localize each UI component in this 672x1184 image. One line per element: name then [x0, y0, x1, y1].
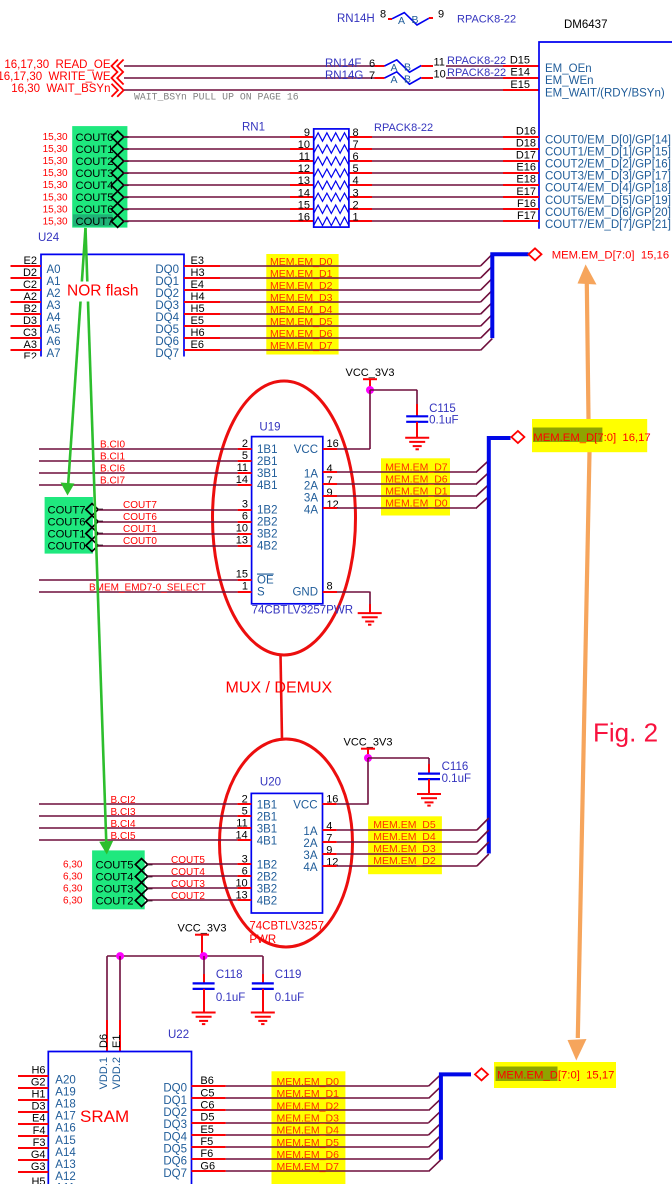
svg-text:A: A [398, 15, 405, 27]
svg-text:1B2: 1B2 [257, 505, 277, 517]
pin stub D16 [503, 136, 539, 138]
bus MEM.EM_D[7:0] top [492, 254, 528, 338]
wire MEM.EM_D2 from U22 [226, 1109, 429, 1111]
bus connector diamond MEM.EM_D[7:0] [529, 248, 542, 260]
svg-text:RPACK8-22: RPACK8-22 [457, 13, 516, 25]
off-page diamond COUT5 [135, 859, 147, 871]
svg-text:2A: 2A [303, 838, 317, 850]
svg-text:6: 6 [242, 511, 248, 523]
pin stub E15 [503, 89, 539, 91]
wire VDD.1 drop [106, 956, 108, 1020]
svg-text:COUT2: COUT2 [171, 891, 205, 902]
wire COUT7 to RN1 [124, 220, 290, 222]
pin stub D15 [503, 65, 539, 67]
svg-text:4: 4 [327, 463, 333, 475]
annotation orange arrow down (16,17 -> 15,17) [568, 1039, 587, 1061]
svg-text:15,30: 15,30 [43, 180, 68, 191]
stub RN1 pin 5 [349, 172, 372, 174]
svg-text:H6: H6 [31, 1065, 45, 1077]
svg-text:E3: E3 [191, 255, 204, 267]
svg-text:D15: D15 [510, 55, 530, 67]
svg-text:3B2: 3B2 [257, 884, 277, 896]
wire MEM.EM_D5 from U22 [226, 1146, 429, 1148]
svg-text:GND: GND [292, 587, 318, 599]
svg-text:MEM.EM_D6: MEM.EM_D6 [270, 328, 333, 340]
off-page diamond COUT1 [86, 528, 98, 540]
IC U24 NOR flash (clipped bottom) [41, 254, 184, 356]
svg-text:2B2: 2B2 [257, 872, 277, 884]
wire RN1 to DM6437 D16 [372, 136, 503, 138]
svg-text:VCC: VCC [294, 444, 318, 456]
svg-text:16: 16 [298, 211, 310, 223]
yellow highlight MEM.EM_D labels (U19) [381, 458, 450, 515]
svg-text:16,17,30 READ_OE: 16,17,30 READ_OE [4, 59, 110, 71]
wire B.CI6 [39, 472, 238, 474]
svg-text:B: B [411, 14, 418, 26]
svg-text:MEM.EM_D6: MEM.EM_D6 [385, 474, 448, 486]
pin stub E18 [503, 184, 539, 186]
svg-text:E5: E5 [191, 315, 204, 327]
stub RN1 pin 11 [290, 160, 314, 162]
svg-text:SRAM: SRAM [80, 1107, 129, 1126]
svg-text:E4: E4 [191, 279, 204, 291]
svg-text:9: 9 [327, 487, 333, 499]
diagonal join MEM.EM_D0 to bus [481, 254, 493, 266]
off-page diamond COUT6 [111, 203, 123, 215]
node VCC junction C118 [200, 952, 208, 960]
svg-text:4A: 4A [304, 505, 318, 517]
off-page diamond COUT1 [111, 143, 123, 155]
IC U20 74CBTLV3257 [249, 777, 324, 947]
svg-text:DQ4: DQ4 [163, 1131, 187, 1143]
svg-text:DQ3: DQ3 [155, 300, 179, 312]
stub U24 H3 [184, 277, 220, 279]
wire RN14F to DM6437 D15 [446, 65, 503, 67]
wire B.CI5 [39, 839, 237, 841]
svg-text:VDD.1: VDD.1 [98, 1057, 110, 1089]
wire COUT0 to U19 [98, 545, 238, 547]
wire COUT5 to RN1 [124, 196, 290, 198]
svg-text:4B2: 4B2 [257, 896, 277, 908]
svg-text:3: 3 [353, 187, 359, 199]
svg-text:12: 12 [327, 499, 339, 511]
stub U22 H1 [18, 1099, 48, 1101]
svg-text:5: 5 [353, 163, 359, 175]
off-page diamond COUT7 [111, 215, 123, 227]
diagonal join MEM.EM_D6 to bus [481, 327, 493, 339]
svg-text:MEM.EM_D1: MEM.EM_D1 [277, 1088, 340, 1100]
stub U22 G6 [192, 1170, 226, 1172]
svg-text:MEM.EM_D7: MEM.EM_D7 [270, 340, 333, 352]
svg-text:MEM.EM_D[7:0] 16,17: MEM.EM_D[7:0] 16,17 [533, 432, 650, 444]
svg-text:VCC_3V3: VCC_3V3 [178, 923, 227, 935]
svg-text:COUT5: COUT5 [171, 855, 205, 866]
svg-text:E18: E18 [516, 174, 536, 186]
pin stub D18 [503, 148, 539, 150]
svg-text:3: 3 [242, 499, 248, 511]
wire U19 VCC [337, 448, 370, 450]
svg-text:COUT1: COUT1 [76, 144, 114, 156]
svg-text:COUT2/EM_D[2]/GP[16]: COUT2/EM_D[2]/GP[16] [545, 159, 671, 171]
node VCC junction U20 [364, 754, 372, 762]
wire COUT1 to U19 [98, 533, 238, 535]
net connector block COUT0-7 (green highlight) [72, 126, 127, 228]
wire B.CI1 [39, 460, 238, 462]
svg-text:COUT1: COUT1 [123, 524, 157, 535]
svg-text:B.CI0: B.CI0 [100, 440, 125, 451]
wire COUT0 to RN1 [124, 136, 290, 138]
svg-text:G2: G2 [31, 1077, 46, 1089]
svg-text:F5: F5 [200, 1136, 213, 1148]
svg-text:4B2: 4B2 [257, 541, 277, 553]
svg-text:COUT7: COUT7 [76, 216, 114, 228]
svg-text:D2: D2 [23, 267, 37, 279]
wire MEM.EM_D1 from U22 [226, 1097, 429, 1099]
svg-text:MEM.EM_D3: MEM.EM_D3 [277, 1112, 340, 1124]
svg-text:EM_OEn: EM_OEn [545, 63, 592, 75]
wire BMEM_EMD7-0_SELECT [39, 591, 238, 593]
svg-text:C118: C118 [216, 969, 243, 981]
svg-text:4B1: 4B1 [257, 480, 277, 492]
svg-text:15,30: 15,30 [43, 192, 68, 203]
off-page diamond COUT4 [111, 179, 123, 191]
bus MEM.EM_D[7:0] bottom [441, 1074, 471, 1159]
svg-text:7: 7 [353, 139, 359, 151]
svg-text:10: 10 [434, 69, 446, 81]
wire MEM.EM_D0 from U22 [226, 1085, 429, 1087]
svg-text:3A: 3A [304, 493, 318, 505]
capacitor C118 [193, 956, 246, 1012]
svg-text:8: 8 [327, 581, 333, 593]
svg-text:MEM.EM_D3: MEM.EM_D3 [373, 843, 436, 855]
svg-text:PWR: PWR [249, 934, 276, 946]
svg-text:MUX / DEMUX: MUX / DEMUX [226, 680, 333, 697]
pin stub F17 [503, 220, 539, 222]
svg-text:COUT4: COUT4 [76, 180, 114, 192]
svg-text:COUT0: COUT0 [48, 540, 86, 552]
svg-text:2: 2 [353, 199, 359, 211]
ground (C118) [192, 1013, 216, 1025]
stub RN1 pin 13 [290, 184, 314, 186]
svg-text:15,30: 15,30 [43, 156, 68, 167]
svg-text:DQ4: DQ4 [155, 312, 179, 324]
stub U22 G2 [18, 1087, 48, 1089]
ground (C116) [417, 794, 441, 806]
svg-text:MEM.EM_D0: MEM.EM_D0 [385, 498, 448, 510]
wire WRITE_WE to RN14G [124, 77, 375, 79]
svg-text:RN14F: RN14F [325, 58, 361, 70]
stub U22 E4 [18, 1123, 48, 1125]
net connector block COUT7/6/1/0 (green highlight) [45, 497, 93, 554]
svg-text:74CBTLV3257: 74CBTLV3257 [249, 921, 324, 933]
wire MEM.EM_D7 from U22 [226, 1170, 429, 1172]
svg-text:COUT0: COUT0 [123, 536, 157, 547]
svg-text:MEM.EM_D2: MEM.EM_D2 [277, 1100, 340, 1112]
svg-text:2A: 2A [304, 481, 318, 493]
wire B.CI7 [39, 484, 238, 486]
wire MEM.EM_D3 from U22 [226, 1122, 429, 1124]
svg-text:4: 4 [353, 175, 359, 187]
svg-text:COUT0/EM_D[0]/GP[14]: COUT0/EM_D[0]/GP[14] [545, 135, 671, 147]
wire B.CI4 [39, 827, 237, 829]
svg-text:WAIT_BSYn PULL UP ON PAGE 16: WAIT_BSYn PULL UP ON PAGE 16 [134, 92, 299, 103]
stub RN1 pin 4 [349, 184, 372, 186]
svg-text:A0: A0 [47, 264, 61, 276]
svg-text:RN1: RN1 [242, 122, 265, 134]
pin stub E16 [503, 172, 539, 174]
wire MEM.EM_D1 from U24 [220, 277, 481, 279]
svg-text:D6: D6 [98, 1034, 110, 1048]
svg-text:DQ6: DQ6 [163, 1156, 187, 1168]
svg-text:MEM.EM_D1: MEM.EM_D1 [270, 268, 333, 280]
svg-text:0.1uF: 0.1uF [275, 992, 304, 1004]
svg-text:E15: E15 [510, 79, 530, 91]
wire U19 GND [337, 591, 370, 593]
stub U22 G4 [18, 1159, 48, 1161]
bus label MEM.EM_D[7:0] 16,17 (highlighted) [532, 419, 647, 452]
svg-text:COUT7/EM_D[7]/GP[21]: COUT7/EM_D[7]/GP[21] [545, 219, 671, 231]
svg-text:B.CI2: B.CI2 [111, 795, 136, 806]
svg-text:6,30: 6,30 [63, 860, 83, 871]
stub RN1 pin 6 [349, 160, 372, 162]
capacitor C119 [252, 956, 304, 1012]
svg-text:H1: H1 [31, 1089, 45, 1101]
svg-text:U24: U24 [38, 232, 60, 244]
svg-text:MEM.EM_D7: MEM.EM_D7 [277, 1161, 340, 1173]
wire VDD.2 drop [119, 956, 121, 1020]
stub RN1 pin 7 [349, 148, 372, 150]
off-page diamond COUT3 [111, 167, 123, 179]
svg-text:B.CI6: B.CI6 [100, 464, 125, 475]
svg-text:MEM.EM_D6: MEM.EM_D6 [277, 1149, 340, 1161]
svg-text:D3: D3 [23, 315, 37, 327]
yellow highlight MEM.EM_D0-7 labels (U24) [266, 254, 338, 355]
svg-text:13: 13 [236, 535, 248, 547]
svg-text:8: 8 [380, 8, 386, 20]
stub U22 H6 [18, 1075, 48, 1077]
svg-text:COUT3: COUT3 [96, 883, 134, 895]
svg-text:A20: A20 [55, 1075, 75, 1087]
svg-text:COUT5: COUT5 [76, 192, 114, 204]
stub RN1 pin 1 [349, 220, 372, 222]
annotation green arrow A (NOR flash to COUT7-0 block) [61, 228, 86, 496]
svg-text:3B2: 3B2 [257, 529, 277, 541]
bus MEM.EM_D[7:0] middle [489, 438, 511, 854]
svg-text:A: A [390, 74, 397, 86]
pin stub D17 [503, 160, 539, 162]
svg-text:1A: 1A [303, 826, 317, 838]
stub RN1 pin 12 [290, 172, 314, 174]
svg-text:C115: C115 [429, 403, 456, 415]
svg-text:NOR flash: NOR flash [67, 283, 139, 300]
svg-text:15,30: 15,30 [43, 132, 68, 143]
svg-text:MEM.EM_D5: MEM.EM_D5 [373, 819, 436, 831]
stub U22 F3 [18, 1147, 48, 1149]
svg-text:DM6437: DM6437 [564, 19, 607, 31]
stub U22 F5 [192, 1146, 226, 1148]
svg-text:COUT4: COUT4 [171, 867, 205, 878]
svg-text:MEM.EM_D4: MEM.EM_D4 [277, 1125, 340, 1137]
svg-text:S: S [257, 587, 265, 599]
selection highlight COUT7 [73, 214, 113, 226]
stub U24 D3 [11, 325, 42, 327]
wire COUT3 to U20 [148, 887, 238, 889]
wire COUT6 to RN1 [124, 208, 290, 210]
wire MEM.EM_D1 [337, 495, 476, 497]
wire U20 VCC [337, 803, 368, 805]
svg-text:VDD.2: VDD.2 [111, 1057, 123, 1089]
off-page diamond COUT5 [111, 191, 123, 203]
pin stub E14 [503, 77, 539, 79]
stub U24 H4 [184, 301, 220, 303]
output port chevron WAIT_BSYn [112, 84, 124, 97]
svg-text:0.1uF: 0.1uF [429, 415, 458, 427]
svg-text:VCC_3V3: VCC_3V3 [346, 367, 395, 379]
wire B.CI2 [39, 803, 237, 805]
resistor pack RN1 [242, 122, 433, 228]
wire MEM.EM_D0 [337, 507, 476, 509]
svg-text:15,30: 15,30 [43, 144, 68, 155]
wire VCC to C116 [368, 757, 429, 759]
svg-text:B.CI5: B.CI5 [111, 831, 136, 842]
wire COUT6 to U19 [98, 521, 238, 523]
svg-text:RN14H: RN14H [337, 13, 375, 25]
svg-text:U19: U19 [259, 421, 280, 433]
svg-text:A2: A2 [47, 288, 61, 300]
svg-text:MEM.EM_D4: MEM.EM_D4 [270, 304, 333, 316]
stub RN1 pin 10 [290, 148, 314, 150]
wire RN14F pin11 stub [421, 65, 433, 67]
diagonal join MEM.EM_D7 to bus [481, 339, 493, 351]
svg-text:D5: D5 [200, 1112, 214, 1124]
svg-text:E16: E16 [516, 162, 536, 174]
wire VCC rail U22 [107, 955, 263, 957]
wire RN14G to DM6437 E14 [446, 77, 503, 79]
stub U24 E3 [184, 265, 220, 267]
svg-text:F17: F17 [517, 210, 536, 222]
svg-text:DQ0: DQ0 [155, 264, 179, 276]
svg-text:MEM.EM_D[7:0] 15,16: MEM.EM_D[7:0] 15,16 [552, 249, 669, 261]
svg-text:A5: A5 [47, 324, 61, 336]
svg-text:2B2: 2B2 [257, 517, 277, 529]
input port chevron WRITE_WE [112, 72, 124, 85]
svg-text:MEM.EM_D2: MEM.EM_D2 [373, 855, 436, 867]
svg-text:13: 13 [298, 175, 310, 187]
svg-text:COUT7: COUT7 [123, 500, 157, 511]
svg-text:DQ2: DQ2 [155, 288, 179, 300]
stub RN1 pin 14 [290, 196, 314, 198]
stub U24 H5 [184, 313, 220, 315]
svg-text:MEM.EM_D0: MEM.EM_D0 [277, 1076, 340, 1088]
svg-text:A14: A14 [55, 1147, 76, 1159]
wire COUT7 to U19 [98, 509, 238, 511]
svg-text:6,30: 6,30 [63, 872, 83, 883]
svg-text:15,30: 15,30 [43, 168, 68, 179]
svg-text:4B1: 4B1 [257, 836, 277, 848]
svg-text:9: 9 [304, 127, 310, 139]
wire MEM.EM_D2 [337, 865, 477, 867]
svg-text:MEM.EM_D0: MEM.EM_D0 [270, 256, 333, 268]
svg-text:A12: A12 [55, 1171, 75, 1183]
stub RN1 pin 3 [349, 196, 372, 198]
svg-text:A3: A3 [24, 339, 37, 351]
svg-text:DQ1: DQ1 [155, 276, 179, 288]
svg-text:H3: H3 [191, 267, 205, 279]
svg-text:MEM.EM_D7: MEM.EM_D7 [385, 462, 448, 474]
capacitor C116 [418, 758, 471, 794]
svg-text:COUT6: COUT6 [48, 516, 86, 528]
svg-text:D16: D16 [516, 126, 536, 138]
net connector block COUT5/4/3/2 (green highlight) [92, 850, 145, 909]
IC U19 74CBTLV3257PWR [252, 421, 353, 616]
ground (U19 pin 8) [358, 613, 382, 625]
svg-text:DQ3: DQ3 [163, 1119, 187, 1131]
off-page diamond COUT2 [135, 895, 147, 907]
off-page diamond COUT6 [86, 516, 98, 528]
wire MEM.EM_D6 from U22 [226, 1158, 429, 1160]
svg-text:8: 8 [353, 127, 359, 139]
svg-text:A19: A19 [55, 1087, 75, 1099]
svg-text:OE: OE [257, 575, 274, 587]
svg-text:12: 12 [298, 163, 310, 175]
svg-text:A3: A3 [47, 300, 61, 312]
svg-text:MEM.EM_D[7:0] 15,17: MEM.EM_D[7:0] 15,17 [497, 1070, 614, 1082]
stub U22 E5 [192, 1134, 226, 1136]
svg-text:DQ6: DQ6 [155, 336, 179, 348]
svg-text:B: B [404, 73, 411, 85]
stub U22 B6 [192, 1085, 226, 1087]
annotation red connector line between ellipses [281, 654, 283, 740]
svg-text:14: 14 [298, 187, 310, 199]
wire MEM.EM_D7 from U24 [220, 349, 481, 351]
off-page diamond COUT0 [86, 540, 98, 552]
annotation orange arrow up (16,17 -> 15,16) [578, 264, 597, 284]
svg-text:7: 7 [369, 70, 375, 82]
pin stub E17 [503, 196, 539, 198]
svg-text:COUT1/EM_D[1]/GP[15]: COUT1/EM_D[1]/GP[15] [545, 147, 671, 159]
diagonal join MEM.EM_D1 to bus [481, 266, 493, 278]
svg-text:B.CI3: B.CI3 [111, 807, 136, 818]
svg-text:COUT6/EM_D[6]/GP[20]: COUT6/EM_D[6]/GP[20] [545, 207, 671, 219]
wire MEM.EM_D4 from U24 [220, 313, 481, 315]
node VCC junction U19 [366, 386, 374, 394]
wire COUT5 to U20 [148, 863, 238, 865]
wire RN1 to DM6437 E16 [372, 172, 503, 174]
svg-text:MEM.EM_D4: MEM.EM_D4 [373, 831, 436, 843]
svg-text:D3: D3 [31, 1101, 45, 1113]
diagonal join MEM.EM_D5 to bus [481, 314, 493, 326]
wire MEM.EM_D6 from U24 [220, 337, 481, 339]
svg-text:1B1: 1B1 [257, 444, 277, 456]
svg-text:G6: G6 [200, 1160, 215, 1172]
svg-text:COUT1: COUT1 [48, 528, 86, 540]
pin stub F16 [503, 208, 539, 210]
svg-text:COUT2: COUT2 [96, 895, 134, 907]
svg-text:0.1uF: 0.1uF [216, 992, 245, 1004]
diagonal join MEM.EM_D2 to bus [481, 278, 493, 290]
svg-text:U20: U20 [260, 777, 281, 789]
svg-text:2B1: 2B1 [257, 456, 277, 468]
svg-text:D17: D17 [516, 150, 536, 162]
IC U22 SRAM (clipped bottom) [48, 1029, 191, 1184]
svg-text:COUT6: COUT6 [76, 204, 114, 216]
stub U22 G3 [18, 1171, 48, 1173]
wire COUT2 to U20 [148, 899, 238, 901]
svg-text:A13: A13 [55, 1159, 75, 1171]
wire VCC to C115 [370, 389, 417, 391]
svg-text:COUT7: COUT7 [48, 504, 86, 516]
svg-text:MEM.EM_D5: MEM.EM_D5 [277, 1137, 340, 1149]
